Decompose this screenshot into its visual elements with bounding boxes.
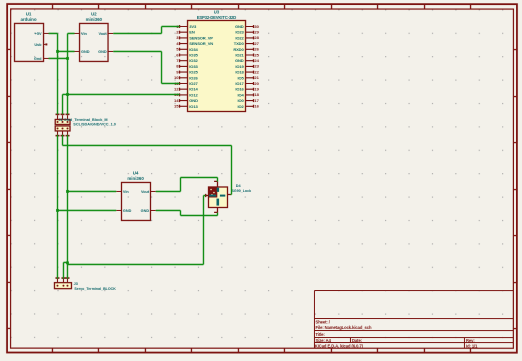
svg-text:File: NametagLock.kicad_sch: File: NametagLock.kicad_sch: [315, 325, 371, 330]
svg-text:IO5: IO5: [237, 75, 244, 80]
svg-text:19: 19: [254, 86, 259, 91]
svg-text:IO21: IO21: [235, 52, 244, 57]
svg-text:U3: U3: [214, 10, 220, 15]
svg-text:28: 28: [254, 35, 259, 40]
svg-text:GND: GND: [98, 50, 107, 54]
svg-text:16: 16: [254, 104, 259, 109]
svg-text:Sheet: /: Sheet: /: [315, 320, 330, 325]
svg-text:15: 15: [174, 104, 179, 109]
svg-text:EN: EN: [189, 30, 195, 35]
svg-text:25: 25: [254, 52, 259, 57]
svg-text:29: 29: [254, 29, 259, 34]
svg-text:SENSOR_VN: SENSOR_VN: [189, 41, 213, 46]
svg-text:SENSOR_VP: SENSOR_VP: [189, 35, 213, 40]
svg-text:IO18: IO18: [235, 70, 244, 75]
svg-text:GND: GND: [235, 58, 244, 63]
svg-text:SCL/SDA/GND/VCC_1.0: SCL/SDA/GND/VCC_1.0: [73, 123, 116, 127]
svg-text:GND: GND: [235, 24, 244, 29]
svg-text:IO19: IO19: [235, 64, 244, 69]
svg-text:IO33: IO33: [189, 64, 198, 69]
svg-text:Servo_Terminal_BLOCK: Servo_Terminal_BLOCK: [74, 287, 116, 291]
svg-text:27: 27: [254, 41, 259, 46]
svg-text:J3: J3: [74, 282, 78, 286]
svg-text:30: 30: [254, 24, 259, 29]
svg-text:20: 20: [254, 81, 259, 86]
svg-text:KiCad E.D.A. kicad (6.0.7): KiCad E.D.A. kicad (6.0.7): [315, 344, 364, 349]
svg-text:IO2: IO2: [237, 104, 244, 109]
svg-text:IO17: IO17: [235, 81, 244, 86]
svg-text:IO22: IO22: [235, 35, 244, 40]
svg-text:RXD0: RXD0: [233, 47, 244, 52]
svg-text:Date:: Date:: [352, 338, 362, 343]
svg-text:GND: GND: [81, 50, 90, 54]
svg-text:22: 22: [254, 69, 259, 74]
svg-text:TXD0: TXD0: [234, 41, 245, 46]
svg-text:IO4: IO4: [237, 92, 244, 97]
svg-text:Title:: Title:: [315, 332, 324, 337]
svg-text:ESP32-DEVKITC-32D: ESP32-DEVKITC-32D: [197, 15, 236, 20]
svg-text:U2: U2: [91, 11, 97, 16]
svg-text:Rev:: Rev:: [466, 338, 475, 343]
svg-text:IO14: IO14: [189, 87, 198, 92]
svg-text:GND: GND: [141, 209, 150, 213]
svg-text:Vin: Vin: [123, 190, 130, 194]
svg-text:+5V: +5V: [35, 32, 42, 36]
svg-text:IO32: IO32: [189, 58, 198, 63]
svg-text:IO13: IO13: [189, 104, 198, 109]
svg-text:IO12: IO12: [189, 92, 198, 97]
svg-text:IO34: IO34: [189, 47, 198, 52]
svg-text:arduino: arduino: [21, 17, 37, 22]
svg-text:24: 24: [254, 58, 259, 63]
svg-text:Size: A4: Size: A4: [315, 338, 331, 343]
svg-text:10: 10: [174, 75, 179, 80]
svg-text:Vout: Vout: [141, 190, 150, 194]
svg-text:18: 18: [254, 92, 259, 97]
svg-text:Gnd: Gnd: [34, 57, 42, 61]
svg-text:GND: GND: [123, 209, 132, 213]
svg-text:12: 12: [174, 86, 179, 91]
svg-text:26: 26: [254, 47, 259, 52]
svg-text:17: 17: [254, 98, 259, 103]
svg-text:IO35: IO35: [189, 52, 198, 57]
svg-text:mini360: mini360: [86, 17, 103, 22]
svg-text:U1: U1: [26, 11, 32, 16]
svg-text:Vout: Vout: [98, 32, 107, 36]
svg-text:IO27: IO27: [189, 81, 198, 86]
svg-text:J2 Oled_Terminal_Block_M: J2 Oled_Terminal_Block_M: [59, 118, 108, 122]
svg-text:IO25: IO25: [189, 70, 198, 75]
svg-text:Usb: Usb: [34, 43, 42, 47]
svg-text:3V3: 3V3: [189, 24, 197, 29]
svg-text:14: 14: [174, 98, 179, 103]
svg-text:IO0: IO0: [237, 98, 244, 103]
svg-text:Vin: Vin: [81, 32, 88, 36]
svg-text:23: 23: [254, 64, 259, 69]
svg-text:Id: 1/1: Id: 1/1: [466, 344, 478, 349]
svg-text:GND: GND: [189, 98, 198, 103]
svg-text:IO26: IO26: [189, 75, 198, 80]
svg-text:IO23: IO23: [235, 30, 244, 35]
svg-text:SG90_Lock: SG90_Lock: [231, 189, 251, 193]
svg-text:mini360: mini360: [127, 176, 144, 181]
svg-text:21: 21: [254, 75, 259, 80]
svg-text:IO16: IO16: [235, 87, 244, 92]
